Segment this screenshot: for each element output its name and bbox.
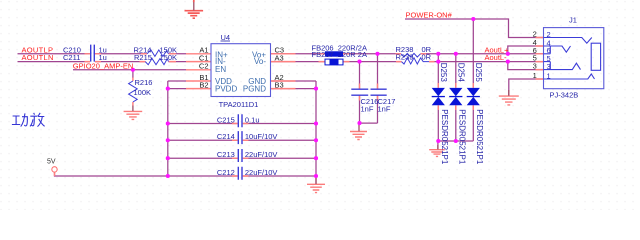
wire R214 leads xyxy=(141,53,176,55)
svg-text:3: 3 xyxy=(533,62,537,71)
svg-text:TPA2011D1: TPA2011D1 xyxy=(219,100,259,109)
wire 5V lead xyxy=(54,172,56,176)
wire IC right pin leads xyxy=(271,54,296,89)
capacitor C210 xyxy=(91,45,95,54)
svg-text:0.1u: 0.1u xyxy=(245,115,260,124)
junction jack pin 3 tie xyxy=(506,60,510,64)
svg-text:R239: R239 xyxy=(396,53,414,62)
svg-text:C211: C211 xyxy=(63,53,80,62)
capacitor C215 xyxy=(238,114,242,127)
wire right ground bus xyxy=(315,81,317,184)
wire C216 top drop xyxy=(359,62,361,89)
diode D255 xyxy=(467,88,480,105)
svg-text:A3: A3 xyxy=(275,53,284,62)
wire GND A2 to right bus xyxy=(271,80,317,82)
ground R216 stem xyxy=(132,106,134,112)
junction PGND at ground bus xyxy=(314,87,318,91)
ground jack pin 1 xyxy=(499,96,519,105)
wire AOUTLN row xyxy=(18,61,187,63)
junction C214 at ground bus xyxy=(314,138,318,142)
wire GPIO20_AMP-EN row xyxy=(73,69,186,71)
wire diode leads xyxy=(438,83,473,110)
connector J1 jack contacts xyxy=(544,38,601,80)
svg-text:AOUTLN: AOUTLN xyxy=(22,53,54,62)
svg-text:22uF/10V: 22uF/10V xyxy=(245,150,278,159)
svg-text:B3: B3 xyxy=(275,81,284,90)
wire jack pin 4 join xyxy=(508,46,544,54)
ground C216 C217 xyxy=(350,132,367,140)
pin numbers U4 right xyxy=(275,46,285,90)
wire diode bottom rail xyxy=(438,105,473,141)
svg-text:1: 1 xyxy=(533,71,537,80)
capacitor C211 xyxy=(91,52,95,61)
junction C212 at 5V bus xyxy=(166,174,170,178)
svg-text:PJ-342B: PJ-342B xyxy=(550,91,579,100)
ferrite bead FB206 xyxy=(325,51,343,56)
wire C213 row xyxy=(168,157,316,159)
label title gong glyph xyxy=(12,113,28,126)
junction D253 at AoutL- xyxy=(436,60,440,64)
ground right bus stem xyxy=(315,176,317,184)
pin numbers U4 left xyxy=(199,46,209,90)
svg-text:10uF/10V: 10uF/10V xyxy=(245,132,278,141)
svg-text:Vo-: Vo- xyxy=(254,57,266,66)
pin numbers J1 outside xyxy=(533,30,537,81)
resistor R215 xyxy=(145,59,168,65)
svg-text:PESDR0521P1: PESDR0521P1 xyxy=(458,109,467,165)
svg-text:U4: U4 xyxy=(221,33,231,42)
svg-text:C215: C215 xyxy=(217,115,235,124)
svg-text:POWER-ON#: POWER-ON# xyxy=(406,10,453,19)
wire FB207 leads xyxy=(319,61,350,63)
wire R216 drop xyxy=(132,70,134,78)
svg-text:C2: C2 xyxy=(199,62,209,71)
junction C213 at 5V bus xyxy=(166,156,170,160)
junction jack pin 4 tie xyxy=(506,52,510,56)
wire C215 row xyxy=(168,123,316,125)
svg-text:150K: 150K xyxy=(160,53,178,62)
wire VDD B1 to left bus xyxy=(168,80,186,82)
resistor R239 xyxy=(402,58,430,64)
pin names U4 xyxy=(215,51,266,94)
wire C217 top drop xyxy=(377,54,379,89)
resistor R214 xyxy=(147,50,169,57)
wire D255 drop xyxy=(472,19,474,88)
junction D254 at AoutL+ xyxy=(454,52,458,56)
svg-text:EN: EN xyxy=(215,65,226,74)
junction R216 at GPIO20_AMP-EN xyxy=(131,68,135,72)
junction C213 at ground bus xyxy=(314,156,318,160)
wire C210 leads xyxy=(85,53,102,55)
wire left 5V bus xyxy=(167,81,169,176)
svg-text:GPIO20_AMP-EN: GPIO20_AMP-EN xyxy=(73,62,133,71)
capacitor C212 xyxy=(238,167,242,180)
ground top xyxy=(185,11,204,19)
wire C214 row xyxy=(168,139,316,141)
wire jack pin 1 to ground xyxy=(509,79,544,96)
op-amp U1 IC box U4 xyxy=(211,44,271,97)
resistor R238 xyxy=(401,53,421,57)
WIRES-PLUM xyxy=(18,19,544,184)
wire C216 C217 leads xyxy=(360,84,378,101)
wire AOUTLP row xyxy=(18,53,187,55)
junction D255 at POWER-ON# xyxy=(471,17,475,21)
svg-text:C214: C214 xyxy=(217,132,235,141)
resistor R216 xyxy=(129,81,138,102)
ground right bus xyxy=(307,184,325,192)
capacitor C217 xyxy=(371,89,387,95)
ground top stem xyxy=(193,0,195,10)
wire 5V C212 row xyxy=(55,172,317,176)
wire R239 leads xyxy=(396,61,435,63)
svg-text:R216: R216 xyxy=(135,78,153,87)
svg-text:B2: B2 xyxy=(199,81,208,90)
capacitor C216 xyxy=(351,89,368,95)
diode D253 xyxy=(432,88,445,105)
junction D253 at ground rail xyxy=(436,139,440,143)
svg-text:3: 3 xyxy=(547,62,551,71)
junction C217 at Vo+ net xyxy=(375,52,379,56)
svg-text:1u: 1u xyxy=(99,53,107,62)
wire D253 drop xyxy=(437,54,439,88)
connector J1 box xyxy=(544,28,604,89)
wire C211 leads xyxy=(85,61,102,63)
wire R216 leads xyxy=(132,78,134,106)
svg-text:J1: J1 xyxy=(569,16,577,25)
junction C215 at ground bus xyxy=(314,121,318,125)
wire FB206 leads xyxy=(319,53,350,55)
svg-text:PESDR0521P1: PESDR0521P1 xyxy=(440,109,449,165)
svg-text:PESDR0521P1: PESDR0521P1 xyxy=(475,109,484,165)
wire PVDD B2 to left bus xyxy=(168,88,186,90)
capacitor C213 xyxy=(238,149,242,162)
pin numbers J1 inside xyxy=(547,30,551,81)
junction C214 at 5V bus xyxy=(166,138,170,142)
junction C216 at Vo- net xyxy=(357,60,361,64)
wire Vo+ row to jack pin 6 xyxy=(271,53,544,55)
wire bottom cap leads xyxy=(232,124,248,177)
svg-text:D254: D254 xyxy=(457,63,466,83)
power port 5V circle xyxy=(52,167,57,172)
wire jack pin 3 join xyxy=(508,62,544,70)
junction C216 C217 bottom xyxy=(357,121,361,125)
junction C215 at 5V bus xyxy=(166,121,170,125)
ground jack stem xyxy=(508,90,510,96)
svg-text:FB207 220R 2A: FB207 220R 2A xyxy=(312,50,367,59)
junction C212 at ground bus xyxy=(314,174,318,178)
PIN-LEADS-SALMON xyxy=(55,38,544,177)
svg-text:R215: R215 xyxy=(134,53,152,62)
GROUNDS xyxy=(124,11,519,193)
svg-text:5V: 5V xyxy=(47,159,56,166)
ferrite bead FB207 xyxy=(325,59,343,65)
ground R216 xyxy=(124,111,143,119)
svg-text:C213: C213 xyxy=(217,150,235,159)
svg-text:D255: D255 xyxy=(474,63,483,83)
svg-text:C212: C212 xyxy=(217,168,235,177)
svg-text:1nF: 1nF xyxy=(378,104,391,113)
svg-text:22uF/10V: 22uF/10V xyxy=(245,168,278,177)
ground diode stem xyxy=(437,145,439,149)
junction D253 at AoutL+ xyxy=(436,52,440,56)
svg-text:AoutL-: AoutL- xyxy=(485,53,508,62)
wire PGND B3 to right bus xyxy=(271,88,317,90)
wire D254 drop xyxy=(455,54,457,88)
svg-text:1nF: 1nF xyxy=(361,104,374,113)
svg-text:100K: 100K xyxy=(134,88,152,97)
wire IC left pin leads xyxy=(186,54,211,89)
svg-text:1: 1 xyxy=(547,71,551,80)
junction D254 at ground rail xyxy=(454,139,458,143)
ground C216 stem xyxy=(358,123,360,131)
wire POWER-ON# to jack pin 2 xyxy=(405,19,544,38)
wire Vo- row to jack pin 5 xyxy=(271,61,544,63)
wire diode rail to ground xyxy=(437,141,439,149)
svg-text:D253: D253 xyxy=(439,63,448,83)
label title fang glyph xyxy=(30,113,45,127)
wire C216 C217 bottom rail xyxy=(360,95,378,123)
diode D254 xyxy=(449,88,462,105)
wire R238 leads xyxy=(396,53,427,55)
svg-text:PGND: PGND xyxy=(243,85,266,94)
capacitor C214 xyxy=(238,131,242,144)
wire R215 leads xyxy=(140,61,177,63)
ground diodes xyxy=(429,150,445,157)
junction PVDD at 5V bus xyxy=(166,87,170,91)
svg-text:0R: 0R xyxy=(422,53,432,62)
svg-text:PVDD: PVDD xyxy=(215,85,237,94)
wire jack pin leads xyxy=(536,38,544,80)
